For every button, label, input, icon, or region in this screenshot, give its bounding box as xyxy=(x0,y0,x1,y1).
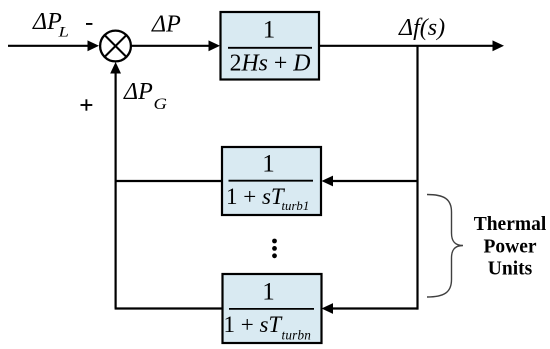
wire: block G3 output to left vertical xyxy=(115,307,223,309)
brace: thermal power units group xyxy=(427,195,463,298)
svg-text:Units: Units xyxy=(488,258,533,279)
svg-text:1: 1 xyxy=(262,150,275,177)
svg-text:G: G xyxy=(154,95,167,112)
wire: right vertical feedback line xyxy=(416,46,418,310)
block G2: 1/(1+sT_turb1) xyxy=(222,147,321,215)
svg-text:L: L xyxy=(57,23,69,40)
svg-text:Thermal: Thermal xyxy=(474,214,547,235)
wire: junction to block G1 xyxy=(131,40,220,51)
svg-text:2Hs + D: 2Hs + D xyxy=(230,50,311,76)
block G1: 1/(2Hs+D) xyxy=(221,12,320,80)
svg-text:ΔP: ΔP xyxy=(151,12,181,38)
svg-text:1 + sT: 1 + sT xyxy=(226,184,286,209)
svg-text:turb1: turb1 xyxy=(282,199,310,213)
dots: vertical ellipsis xyxy=(272,239,277,259)
wire: left vertical line to junction xyxy=(110,62,121,309)
svg-text:Δf(s): Δf(s) xyxy=(398,15,445,41)
label plus sign xyxy=(81,99,93,110)
wire: block G1 output line xyxy=(319,40,504,51)
label ΔP_G xyxy=(123,79,167,113)
label minus sign xyxy=(86,23,92,25)
svg-text:1: 1 xyxy=(262,278,275,305)
svg-text:Power: Power xyxy=(483,237,536,258)
block G3: 1/(1+sT_turbn) xyxy=(223,274,322,343)
svg-text:1 + sT: 1 + sT xyxy=(224,312,284,337)
summing junction xyxy=(100,31,131,62)
label Thermal Power Units xyxy=(474,214,547,279)
svg-text:1: 1 xyxy=(263,17,276,44)
wire: feedback into block G2 xyxy=(322,176,418,187)
wire: block G2 output to left vertical xyxy=(116,180,222,182)
wire: feedback into block G3 xyxy=(322,303,418,314)
svg-text:ΔP: ΔP xyxy=(123,79,153,105)
wire: input signal line xyxy=(8,40,99,51)
label ΔP_L xyxy=(32,9,69,40)
svg-text:turbn: turbn xyxy=(282,328,312,343)
